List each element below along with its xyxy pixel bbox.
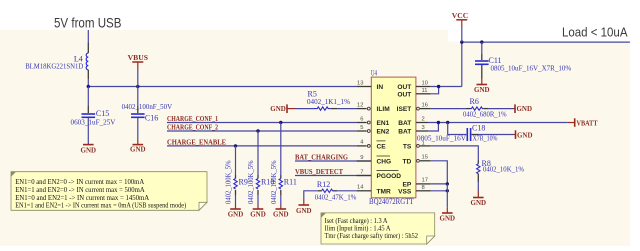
- svg-text:TS: TS: [403, 143, 412, 150]
- node junction ENABLE / R9: [234, 144, 237, 147]
- wire R10 to ground: [257, 195, 259, 205]
- ground for C11: [474, 79, 490, 94]
- svg-text:11: 11: [422, 88, 428, 94]
- pin 16 ISET: [417, 107, 420, 110]
- inductor L4 (ferrite bead): [25, 43, 88, 79]
- svg-text:0402_1K1_1%: 0402_1K1_1%: [307, 98, 350, 106]
- svg-text:15: 15: [422, 155, 428, 161]
- svg-text:TMR: TMR: [377, 188, 392, 195]
- svg-text:17: 17: [422, 178, 428, 184]
- node junction VSS: [446, 189, 449, 192]
- svg-text:16: 16: [422, 102, 428, 108]
- svg-text:0603_1uF_25V: 0603_1uF_25V: [71, 119, 117, 127]
- pin 9 CHG: [357, 160, 372, 162]
- note box charge parameters: [321, 213, 435, 244]
- svg-text:GND: GND: [474, 85, 490, 94]
- wire C18 drop: [448, 123, 467, 135]
- node junction EP: [446, 182, 449, 185]
- svg-text:2: 2: [422, 116, 425, 122]
- svg-text:8: 8: [422, 185, 425, 191]
- capacitor C16: [122, 87, 173, 141]
- node junction OUT: [437, 85, 440, 88]
- svg-text:13: 13: [357, 80, 363, 86]
- svg-text:7: 7: [360, 169, 363, 175]
- svg-text:VBUS: VBUS: [128, 53, 148, 62]
- wire R12 to TMR: [337, 190, 357, 192]
- ground for C18 (right bar style): [513, 130, 533, 139]
- ground for R5 (left bar style): [270, 104, 295, 113]
- svg-text:3: 3: [422, 125, 425, 131]
- pin 4 CE: [357, 145, 367, 147]
- wire R6 to ground: [488, 108, 513, 110]
- svg-text:0402_10K_1%: 0402_10K_1%: [483, 166, 524, 174]
- wire R8 to ground: [477, 182, 479, 191]
- svg-text:EN1: EN1: [377, 120, 390, 127]
- wire CHARGE_CONF_1 to EN1: [167, 122, 357, 124]
- wire L4 to IN rail: [87, 79, 89, 87]
- svg-text:CE: CE: [377, 143, 387, 150]
- svg-text:OUT: OUT: [397, 84, 411, 91]
- ground for R11: [273, 205, 289, 219]
- svg-text:BLM18KG221SN1D: BLM18KG221SN1D: [25, 63, 83, 71]
- svg-text:BAT: BAT: [398, 129, 411, 136]
- svg-text:R5: R5: [308, 89, 317, 98]
- power port VBUS: [128, 53, 148, 70]
- svg-text:BQ24072RGTT: BQ24072RGTT: [369, 197, 414, 206]
- svg-text:Iset (Fast charge) : 1.3 A: Iset (Fast charge) : 1.3 A: [325, 218, 388, 225]
- svg-text:GND: GND: [130, 145, 146, 154]
- capacitor C11: [475, 42, 571, 78]
- wire ISET to R6: [431, 108, 467, 110]
- wire R9 to ground: [235, 195, 237, 205]
- pin 1 TS: [417, 145, 420, 148]
- svg-text:EN2: EN2: [377, 129, 390, 136]
- pin 13 IN: [357, 86, 372, 88]
- pin 10 OUT: [416, 86, 431, 88]
- resistor R5: [307, 89, 350, 110]
- capacitor C15: [71, 87, 117, 144]
- ground for C16: [130, 140, 146, 154]
- white annotation area top-right: [448, 30, 630, 42]
- svg-text:EN1=1 and EN2=1 -> IN current: EN1=1 and EN2=1 -> IN current max = 0mA …: [15, 203, 186, 210]
- note box EN table: [11, 172, 207, 211]
- svg-text:PGOOD: PGOOD: [377, 173, 402, 180]
- svg-text:GND: GND: [296, 206, 312, 215]
- svg-text:GND: GND: [517, 104, 533, 113]
- pin 6 EN1: [357, 122, 367, 124]
- svg-text:C15: C15: [96, 109, 109, 118]
- svg-text:GND: GND: [81, 146, 97, 155]
- resistor R6: [463, 97, 507, 118]
- pin 7 PGOOD: [357, 175, 372, 177]
- svg-text:BAT: BAT: [398, 120, 411, 127]
- wire VBUS_DETECT to PGOOD: [295, 175, 371, 177]
- svg-text:14: 14: [357, 185, 364, 191]
- node junction BAT: [437, 121, 440, 124]
- wire TS to R8: [431, 146, 479, 161]
- resistor R8: [477, 159, 524, 182]
- pin 11 OUT: [416, 93, 431, 95]
- svg-text:0402_680R_1%: 0402_680R_1%: [463, 110, 507, 118]
- svg-text:VBATT: VBATT: [577, 119, 598, 128]
- wire down to R11: [280, 123, 282, 176]
- node junction VBUS/C16: [136, 85, 139, 88]
- svg-text:X7R_10%: X7R_10%: [473, 134, 498, 142]
- svg-text:VSS: VSS: [398, 188, 412, 195]
- svg-text:GND: GND: [440, 213, 456, 222]
- wire VSS to junction: [431, 190, 448, 192]
- wire riser OUT to VCC rail: [461, 42, 463, 86]
- wire R11 to ground: [280, 195, 282, 205]
- svg-text:12: 12: [357, 102, 363, 108]
- svg-text:IN: IN: [377, 84, 384, 91]
- svg-text:10: 10: [422, 80, 428, 86]
- svg-text:TD: TD: [403, 158, 412, 165]
- IC U4 BQ24072RGTT body: [371, 77, 416, 198]
- ground for R6 (right bar style): [513, 104, 532, 113]
- wire down to R10: [257, 131, 259, 175]
- pin 14 TMR: [357, 190, 372, 192]
- wire 5V-from-USB vertical into L4: [87, 30, 89, 43]
- svg-text:GND: GND: [273, 210, 289, 219]
- wire VBUS to rail: [137, 70, 139, 87]
- node junction CONF_2 / R10: [256, 129, 259, 132]
- wire R12 to ground: [304, 191, 318, 200]
- ground for C15: [81, 143, 97, 155]
- pin 8 VSS: [416, 190, 431, 192]
- svg-text:GND: GND: [471, 198, 487, 207]
- resistor R9: [225, 160, 248, 204]
- svg-text:0402_100K_5%: 0402_100K_5%: [225, 160, 233, 204]
- svg-text:OUT: OUT: [397, 91, 411, 98]
- capacitor C18 (horizontal): [417, 124, 498, 143]
- node junction CONF_1 / R11: [279, 121, 282, 124]
- wire VCC rail: [462, 41, 630, 43]
- svg-text:Ilim (Input limit) : 1.45 A: Ilim (Input limit) : 1.45 A: [325, 226, 391, 233]
- svg-text:U4: U4: [371, 69, 377, 78]
- svg-text:0402_100nF_50V: 0402_100nF_50V: [122, 103, 173, 111]
- pin 3 BAT: [416, 130, 428, 132]
- svg-text:EN1=1 and EN2=0 -> IN current: EN1=1 and EN2=0 -> IN current max = 500m…: [15, 187, 145, 194]
- wire VSS rail to ground: [446, 184, 448, 208]
- wire BAT rail to VBATT: [428, 122, 567, 124]
- svg-text:9: 9: [360, 155, 363, 161]
- svg-text:GND: GND: [270, 104, 286, 113]
- wire C18 to ground: [478, 134, 513, 136]
- svg-text:0805_10uF_16V_X7R_10%: 0805_10uF_16V_X7R_10%: [491, 65, 572, 73]
- wire CHARGE_ENABLE to CE: [167, 145, 357, 147]
- svg-text:C18: C18: [472, 124, 485, 133]
- svg-text:R12: R12: [317, 180, 330, 189]
- ground for R8: [471, 191, 487, 207]
- svg-text:BAT_CHARGING: BAT_CHARGING: [295, 153, 348, 162]
- pin 12 ILIM: [357, 108, 367, 110]
- svg-text:5: 5: [360, 125, 363, 131]
- svg-text:Load < 10uA: Load < 10uA: [562, 25, 628, 40]
- svg-text:R6: R6: [470, 97, 479, 106]
- svg-text:CHARGE_ENABLE: CHARGE_ENABLE: [167, 137, 226, 146]
- node junction C18 tap: [446, 121, 449, 124]
- pin 2 BAT: [416, 122, 428, 124]
- svg-text:GND: GND: [517, 130, 533, 139]
- ground for R9: [228, 205, 244, 219]
- ground for VSS/EP: [440, 208, 456, 223]
- wire BAT pins join: [428, 123, 438, 132]
- pin 5 EN2: [357, 130, 367, 132]
- svg-text:0402_47K_1%: 0402_47K_1%: [315, 194, 357, 202]
- svg-text:0805_10uF_16V: 0805_10uF_16V: [417, 134, 467, 142]
- resistor R10: [247, 160, 274, 204]
- svg-text:CHG: CHG: [377, 159, 392, 166]
- svg-text:GND: GND: [250, 210, 266, 219]
- pin 15 TD: [417, 159, 420, 162]
- resistor R11: [270, 160, 297, 204]
- wire R5 to ILIM: [337, 108, 357, 110]
- node junction L4/C15: [87, 85, 90, 88]
- svg-text:0402_100K_5%: 0402_100K_5%: [247, 160, 255, 204]
- wire EP to junction: [431, 183, 448, 185]
- svg-text:EN1=0 and EN2=1 -> IN current: EN1=0 and EN2=1 -> IN current max = 1450…: [15, 195, 149, 202]
- svg-text:ILIM: ILIM: [377, 106, 391, 113]
- svg-text:Tmr (Fast charge safty timer): Tmr (Fast charge safty timer) : 5h52: [325, 233, 419, 240]
- svg-text:VBUS_DETECT: VBUS_DETECT: [295, 167, 343, 176]
- ground for R10: [250, 205, 266, 219]
- power port VCC: [452, 11, 468, 27]
- svg-text:6: 6: [360, 116, 363, 122]
- svg-text:GND: GND: [228, 210, 244, 219]
- svg-text:0402_100K_5%: 0402_100K_5%: [270, 160, 278, 204]
- wire TD to EP rail: [431, 161, 448, 184]
- wire CHARGE_CONF_2 to EN2: [167, 130, 357, 132]
- wire BAT_CHARGING to CHG: [295, 160, 371, 162]
- svg-text:5V from USB: 5V from USB: [54, 16, 122, 31]
- resistor R12: [315, 180, 357, 202]
- node junction VCC: [460, 40, 463, 43]
- svg-text:C16: C16: [145, 114, 158, 123]
- node junction C11: [480, 40, 483, 43]
- pin 17 EP: [416, 183, 431, 185]
- wire GND to R5: [296, 108, 315, 110]
- wire IN rail horizontal: [88, 86, 356, 88]
- wire VCC port to rail: [461, 27, 463, 42]
- wire down to R9: [235, 146, 237, 175]
- svg-text:VCC: VCC: [452, 11, 468, 20]
- power port VBATT: [567, 118, 597, 127]
- svg-text:EN1=0 and EN2=0 -> IN current: EN1=0 and EN2=0 -> IN current max = 100m…: [15, 179, 144, 186]
- svg-text:ISET: ISET: [397, 106, 412, 113]
- ground for R12: [296, 200, 312, 215]
- svg-text:CHARGE_CONF_2: CHARGE_CONF_2: [167, 123, 218, 132]
- wire OUT pins join: [431, 87, 439, 94]
- svg-text:R11: R11: [284, 178, 297, 187]
